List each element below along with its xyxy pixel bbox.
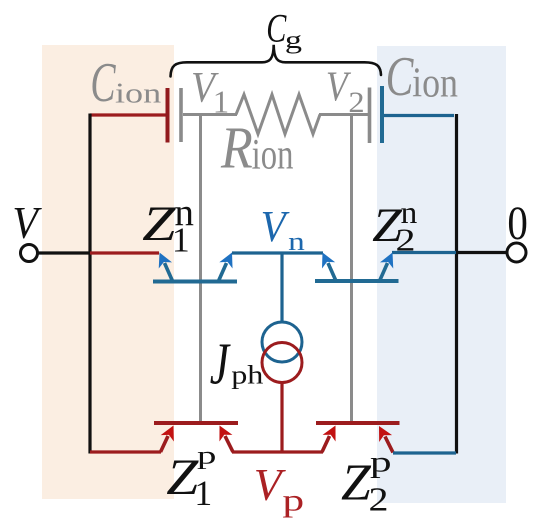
wire black (right rail to 0 circle) xyxy=(456,251,507,254)
svg-text:ph: ph xyxy=(231,361,264,389)
svg-text:C: C xyxy=(386,45,415,107)
svg-text:Z: Z xyxy=(142,196,176,251)
left electrode band xyxy=(42,45,174,499)
label Cion right xyxy=(386,45,459,107)
svg-text:2: 2 xyxy=(369,481,389,518)
label terminal V xyxy=(12,198,42,248)
svg-text:1: 1 xyxy=(172,221,190,259)
label Cion left xyxy=(90,52,161,114)
label Vp xyxy=(254,459,304,518)
capacitor Cion right blue plate xyxy=(380,86,384,143)
svg-text:ion: ion xyxy=(115,78,161,109)
svg-text:V: V xyxy=(12,198,42,248)
node V1 gray line xyxy=(199,114,202,423)
label V2 xyxy=(326,63,365,119)
svg-text:R: R xyxy=(220,115,253,181)
capacitor Cion left gray plate xyxy=(179,88,183,142)
transistor Z2p xyxy=(316,422,400,452)
capacitor Cion left red plate xyxy=(166,88,170,143)
label Z2n xyxy=(372,196,417,258)
svg-text:2: 2 xyxy=(348,85,364,119)
wire gray (resistor to right plate) xyxy=(319,113,368,116)
label V1 xyxy=(191,62,229,119)
label Z1n xyxy=(142,191,194,259)
label Z1p xyxy=(166,442,216,513)
wire red bottom-left (left rail to Z1p) xyxy=(90,450,161,453)
svg-text:V: V xyxy=(261,203,291,252)
svg-text:J: J xyxy=(210,332,232,397)
svg-text:1: 1 xyxy=(194,472,212,512)
wire blue bottom-right (Z2p to right rail) xyxy=(393,451,456,454)
wire red Vp (Z1p to Z2p) xyxy=(232,450,323,453)
svg-text:p: p xyxy=(370,446,392,479)
capacitor Cion right gray plate xyxy=(368,88,372,144)
node V2 gray line xyxy=(350,116,353,423)
svg-text:C: C xyxy=(266,5,286,50)
svg-text:g: g xyxy=(285,25,302,54)
svg-text:C: C xyxy=(90,52,116,114)
wire red vertical (Jph to Vp) xyxy=(280,383,283,452)
transistor Z2n xyxy=(315,249,399,281)
label Cg xyxy=(266,5,302,54)
svg-text:1: 1 xyxy=(213,84,229,119)
brace Cg xyxy=(171,45,382,77)
svg-text:p: p xyxy=(282,483,304,518)
wire blue vertical (Vn to Jph) xyxy=(280,253,283,322)
resistor Rion xyxy=(236,95,320,135)
label Vn xyxy=(261,203,305,257)
wire red top-left (V rail to left plate of Cion) xyxy=(90,113,166,116)
wire red (left rail to Z1n) xyxy=(90,251,159,254)
current source Jph red circle xyxy=(262,343,302,383)
wire left rail vertical (black) xyxy=(88,114,91,454)
svg-text:p: p xyxy=(197,442,216,470)
wire blue (Z2n to right rail) xyxy=(392,251,456,254)
terminal 0 circle xyxy=(507,243,526,262)
wire gray (gray plate to resistor) xyxy=(183,113,237,116)
transistor Z1n xyxy=(153,249,239,281)
transistor Z1p xyxy=(154,422,238,452)
wire blue top-right (blue plate to right rail) xyxy=(384,114,454,117)
label Rion xyxy=(220,115,293,181)
svg-text:Z: Z xyxy=(341,455,372,512)
svg-text:ion: ion xyxy=(412,60,458,106)
right electrode band xyxy=(377,46,506,503)
svg-text:ion: ion xyxy=(252,131,294,178)
wire blue Vn (Z1n to Z2n) xyxy=(232,251,323,254)
label Z2p xyxy=(341,446,392,519)
svg-text:V: V xyxy=(326,63,351,111)
wire black (V circle to left rail) xyxy=(38,251,90,254)
current source Jph blue circle xyxy=(262,322,302,362)
label Jph xyxy=(210,332,264,397)
svg-text:2: 2 xyxy=(396,222,416,257)
wire right rail vertical (black) xyxy=(455,114,458,454)
svg-text:n: n xyxy=(288,227,305,256)
label terminal 0 xyxy=(507,197,528,249)
terminal V circle xyxy=(21,245,38,262)
